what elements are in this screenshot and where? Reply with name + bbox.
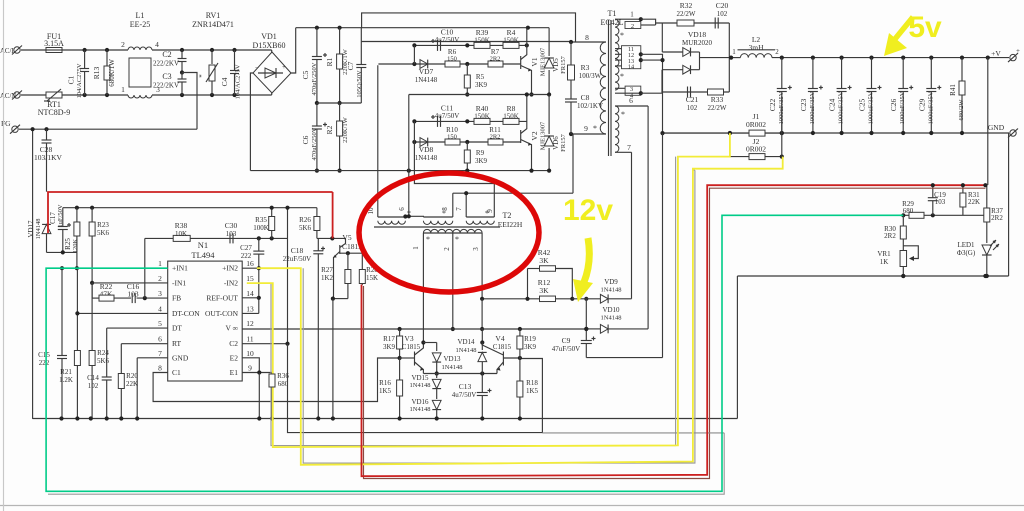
svg-text:V4: V4 bbox=[495, 334, 504, 343]
svg-text:9: 9 bbox=[248, 364, 252, 373]
svg-text:VD6: VD6 bbox=[552, 136, 560, 150]
svg-text:6: 6 bbox=[398, 207, 406, 211]
wire collector rail to T1 pin8 bbox=[362, 41, 571, 43]
wire VD8 row bbox=[414, 141, 520, 143]
svg-text:E1: E1 bbox=[230, 368, 239, 377]
wire bottom primary rail bbox=[250, 170, 549, 172]
wire red feedback highlight bbox=[332, 192, 334, 238]
svg-text:1000uF/35V: 1000uF/35V bbox=[838, 91, 845, 124]
T1 aux winding pins 6 7 bbox=[615, 106, 619, 152]
wire T2 pin3 down bbox=[481, 233, 483, 299]
svg-text:N1: N1 bbox=[198, 240, 208, 250]
svg-text:C8: C8 bbox=[581, 93, 590, 102]
wire C22 column to J rows bbox=[781, 97, 783, 157]
svg-text:103: 103 bbox=[127, 290, 139, 299]
capacitor C3 222/2KV bbox=[181, 73, 183, 80]
svg-text:VD14: VD14 bbox=[457, 338, 475, 346]
svg-text:0R002: 0R002 bbox=[746, 120, 766, 129]
wire right edge column bbox=[1008, 133, 1010, 276]
wire gray J2 sense return bbox=[693, 169, 695, 171]
arrow 5v yellow bbox=[895, 17, 913, 39]
svg-text:OUT-CON: OUT-CON bbox=[205, 309, 239, 318]
wire -IN1 pin2 bbox=[92, 282, 168, 284]
svg-text:150K: 150K bbox=[474, 37, 490, 45]
svg-text:1N4148: 1N4148 bbox=[35, 219, 42, 240]
capacitor C30 103 bbox=[229, 233, 231, 243]
wire +5V rail bbox=[772, 57, 1009, 59]
svg-text:V2: V2 bbox=[530, 131, 539, 140]
svg-text:R13: R13 bbox=[92, 67, 101, 80]
wire C21 R33 row bbox=[641, 92, 730, 93]
wire GND pin7 column bbox=[137, 357, 168, 359]
svg-text:1N4148: 1N4148 bbox=[410, 406, 431, 413]
svg-text:-IN1: -IN1 bbox=[172, 278, 186, 287]
resistor R25 120K bbox=[76, 208, 78, 222]
diode VD18 MUR2020 lower bbox=[683, 65, 691, 74]
svg-text:AC/L: AC/L bbox=[0, 48, 15, 55]
svg-text:*: * bbox=[198, 74, 206, 78]
svg-text:ZNR14D471: ZNR14D471 bbox=[192, 20, 234, 29]
svg-text:4: 4 bbox=[158, 304, 162, 313]
wire bus riser to output common bbox=[736, 276, 738, 419]
wire AC/N to bridge bottom bbox=[271, 93, 273, 95]
svg-text:1: 1 bbox=[158, 259, 162, 268]
wire FG line bbox=[19, 128, 197, 130]
T2 bottom winding pins 2 3 bbox=[453, 229, 482, 233]
wire VD7 row bbox=[378, 63, 520, 65]
svg-text:R23: R23 bbox=[97, 221, 109, 229]
svg-text:C14: C14 bbox=[87, 374, 99, 382]
wire DT pin5 column bbox=[106, 328, 108, 376]
wire gray drive line extension bbox=[542, 432, 724, 434]
resistor R6 150 bbox=[445, 61, 460, 67]
svg-text:3K9: 3K9 bbox=[475, 157, 488, 165]
svg-text:102/1KV: 102/1KV bbox=[577, 102, 603, 110]
svg-text:*: * bbox=[620, 31, 624, 40]
svg-text:EEI22H: EEI22H bbox=[498, 220, 523, 229]
svg-text:+V: +V bbox=[991, 49, 1001, 58]
svg-text:FR157: FR157 bbox=[560, 55, 567, 73]
svg-text:3K: 3K bbox=[539, 256, 549, 265]
arrow 12v yellow bbox=[584, 238, 589, 282]
svg-text:1uF/50V: 1uF/50V bbox=[57, 204, 64, 227]
T1 pin 1 bbox=[615, 18, 641, 20]
svg-text:*: * bbox=[593, 124, 597, 133]
resistor R18 1K5 bbox=[519, 358, 521, 381]
svg-text:14: 14 bbox=[628, 63, 634, 70]
svg-text:15K: 15K bbox=[366, 274, 378, 282]
resistor R1 220K/1W bbox=[339, 28, 341, 54]
T1 secondary winding continuous bbox=[615, 19, 619, 90]
wire AC/L to bridge top bbox=[271, 50, 273, 53]
svg-text:105Q/50V: 105Q/50V bbox=[356, 70, 363, 98]
svg-text:2: 2 bbox=[158, 274, 162, 283]
wire GND rail bbox=[663, 132, 1010, 134]
svg-text:T1: T1 bbox=[608, 9, 617, 18]
svg-text:*: * bbox=[426, 235, 430, 244]
resistor R9 3K9 bbox=[466, 142, 468, 150]
wire fuse to L1 pin2 bbox=[62, 49, 128, 51]
svg-text:V3: V3 bbox=[404, 334, 413, 343]
resistor R7 2R2 bbox=[488, 61, 503, 67]
svg-text:R9: R9 bbox=[476, 149, 485, 157]
svg-text:12v: 12v bbox=[563, 194, 613, 227]
T1 primary winding pin8 pin9 bbox=[600, 42, 606, 134]
resistor R42 3K bbox=[528, 268, 540, 270]
resistor R37 2R2 bbox=[986, 185, 988, 209]
svg-text:R33: R33 bbox=[711, 95, 724, 104]
svg-text:C1815: C1815 bbox=[493, 344, 512, 351]
wire mid rail bbox=[317, 102, 361, 104]
svg-text:VD7: VD7 bbox=[419, 67, 434, 76]
wire V3 collector row to VD13 bbox=[423, 342, 436, 344]
wire positive rail bbox=[296, 27, 549, 29]
resistor R33 22/2W bbox=[708, 89, 724, 95]
resistor R19 3K9 bbox=[519, 329, 521, 336]
svg-text:C7: C7 bbox=[346, 61, 355, 70]
red ellipse around T2 bbox=[359, 173, 539, 292]
wire L1 pin4 to bridge bbox=[152, 49, 272, 51]
svg-text:4u7/50V: 4u7/50V bbox=[435, 36, 460, 44]
T2 top winding pin 8 bbox=[423, 221, 452, 225]
capacitor C19 103 bbox=[932, 185, 934, 198]
svg-text:3K: 3K bbox=[539, 286, 549, 295]
T2 top winding pins 7 9 bbox=[466, 221, 494, 225]
resistor R29 680 bbox=[909, 212, 924, 218]
capacitor C13 4u7/50V bbox=[481, 374, 483, 393]
resistor R32 22/2W bbox=[677, 20, 694, 26]
T2 bottom winding pins 1 2 bbox=[423, 229, 452, 233]
svg-text:GND: GND bbox=[172, 353, 189, 362]
svg-text:470uF/250V: 470uF/250V bbox=[311, 127, 318, 160]
svg-text:C17: C17 bbox=[49, 212, 57, 224]
svg-text:680/2W: 680/2W bbox=[958, 99, 965, 121]
svg-text:100/3W: 100/3W bbox=[579, 72, 602, 80]
svg-text:1000uF/35V: 1000uF/35V bbox=[927, 91, 934, 124]
terminal FG bbox=[12, 126, 18, 132]
svg-text:MUR2020: MUR2020 bbox=[682, 39, 712, 47]
wire pin13 row bbox=[242, 312, 259, 314]
svg-text:+: + bbox=[1016, 47, 1020, 55]
svg-text:1000uF/35V: 1000uF/35V bbox=[809, 91, 816, 124]
wire midpoint rail bbox=[409, 94, 549, 96]
svg-text:1K: 1K bbox=[880, 258, 889, 266]
wire pin7 column to VD9 bbox=[631, 152, 633, 298]
capacitor C24 1000uF/35V bbox=[841, 58, 843, 89]
wire RT1 to L1 pin1 bbox=[62, 94, 128, 96]
resistor R30 2R2 bbox=[902, 215, 904, 226]
svg-text:104/AC275V: 104/AC275V bbox=[76, 63, 83, 98]
svg-text:1: 1 bbox=[412, 246, 420, 250]
svg-text:-IN2: -IN2 bbox=[224, 279, 238, 288]
svg-text:680K/1W: 680K/1W bbox=[108, 59, 116, 87]
svg-text:150K: 150K bbox=[503, 37, 519, 45]
svg-text:R5: R5 bbox=[476, 73, 485, 81]
svg-text:R21: R21 bbox=[60, 368, 72, 376]
svg-text:V ∞: V ∞ bbox=[225, 324, 238, 333]
svg-text:22K: 22K bbox=[968, 198, 980, 206]
capacitor C29 1000uF/35V bbox=[930, 58, 932, 89]
capacitor C4 104/AC275V bbox=[234, 50, 236, 71]
wire V5 base row bbox=[340, 252, 363, 254]
svg-text:C2: C2 bbox=[229, 339, 238, 348]
svg-text:102: 102 bbox=[717, 10, 728, 18]
svg-text:100K: 100K bbox=[253, 224, 269, 232]
svg-text:REF-OUT: REF-OUT bbox=[206, 293, 238, 302]
wire REF rail bbox=[63, 207, 317, 209]
resistor R26 5K6 bbox=[316, 208, 318, 217]
resistor R4 150K bbox=[503, 42, 519, 48]
svg-text:222/2KV: 222/2KV bbox=[153, 60, 179, 68]
wire bridge minus down bbox=[250, 73, 253, 171]
capacitor C16 103 bbox=[114, 297, 131, 299]
svg-text:C29: C29 bbox=[917, 99, 926, 112]
wire V5 emitter column down bbox=[332, 299, 334, 419]
svg-text:6: 6 bbox=[158, 335, 162, 344]
svg-text:*: * bbox=[455, 235, 459, 244]
svg-text:3K9: 3K9 bbox=[475, 81, 488, 89]
wire R42 R12 left bracket bbox=[527, 269, 529, 299]
wire snubber right leg bbox=[728, 23, 730, 92]
svg-text:1N4148: 1N4148 bbox=[442, 364, 463, 371]
svg-text:*: * bbox=[485, 209, 489, 218]
svg-text:RT: RT bbox=[172, 339, 182, 348]
svg-text:C1: C1 bbox=[67, 75, 76, 84]
capacitor C20 102 bbox=[714, 18, 716, 29]
svg-text:AC/N: AC/N bbox=[0, 93, 16, 100]
wire T2 pin1 down to V3 collector bbox=[422, 233, 424, 343]
svg-text:680: 680 bbox=[903, 207, 914, 215]
wire T2 pin9 up jog to VD8 row bbox=[414, 142, 494, 217]
resistor R10 150 bbox=[445, 139, 460, 145]
svg-text:8: 8 bbox=[158, 364, 162, 373]
capacitor C5 470uF/250V bbox=[316, 28, 318, 57]
page edge lines bbox=[0, 505, 1024, 507]
diode VD10 1N4148 bbox=[586, 328, 600, 330]
svg-text:R19: R19 bbox=[524, 335, 536, 343]
svg-text:C9: C9 bbox=[562, 336, 571, 345]
resistor R13 680K/1W bbox=[106, 50, 108, 66]
wire REF column bbox=[287, 208, 289, 344]
svg-text:VD16: VD16 bbox=[411, 398, 429, 406]
T2 top winding pins 10 6 bbox=[378, 221, 406, 224]
resistor R36 body overlay bbox=[269, 374, 275, 387]
svg-text:7: 7 bbox=[455, 207, 463, 211]
transistor V2 MJE13007 bbox=[520, 130, 522, 143]
svg-text:E2: E2 bbox=[230, 353, 239, 362]
svg-text:150K: 150K bbox=[474, 113, 490, 121]
wire R26 bottom node bbox=[317, 237, 346, 239]
svg-text:0R002: 0R002 bbox=[746, 145, 766, 154]
svg-text:VD8: VD8 bbox=[419, 145, 434, 154]
svg-text:5K6: 5K6 bbox=[97, 229, 110, 237]
svg-text:C1815: C1815 bbox=[402, 344, 421, 351]
wire emitter common row bbox=[423, 373, 497, 375]
svg-text:FB: FB bbox=[172, 294, 181, 303]
svg-text:R41: R41 bbox=[949, 84, 957, 96]
svg-text:C21: C21 bbox=[686, 95, 699, 104]
svg-text:150: 150 bbox=[447, 56, 457, 63]
wire yellow pin16 to J2 right bbox=[257, 157, 783, 465]
svg-text:NTC8D-9: NTC8D-9 bbox=[38, 108, 70, 117]
wire C2-C3 midpoint to FG line bbox=[182, 73, 197, 130]
terminal AC/N bbox=[14, 92, 20, 98]
svg-text:C23: C23 bbox=[799, 99, 808, 112]
svg-text:7: 7 bbox=[158, 349, 162, 358]
diode VD14 1N4148 bbox=[481, 329, 483, 350]
svg-text:2: 2 bbox=[631, 23, 634, 30]
wire snubber row R32 C20 bbox=[641, 19, 656, 25]
svg-text:8: 8 bbox=[585, 33, 589, 42]
svg-text:4u7/50V: 4u7/50V bbox=[435, 112, 460, 120]
svg-text:GND: GND bbox=[988, 123, 1005, 132]
svg-text:1000uF/35V: 1000uF/35V bbox=[868, 91, 875, 124]
diode VD16 1N4148 bbox=[436, 389, 438, 400]
resistor R17 3K9 bbox=[399, 329, 401, 336]
svg-text:R1: R1 bbox=[325, 57, 334, 66]
resistor R20 22K bbox=[121, 343, 167, 345]
wire dark red feedback original bbox=[364, 188, 986, 478]
thermistor RT1 NTC8D-9 bbox=[46, 92, 62, 98]
svg-text:5K6: 5K6 bbox=[97, 357, 110, 365]
wire pin6 column to VD10 bbox=[647, 106, 649, 329]
svg-text:1: 1 bbox=[732, 48, 736, 56]
svg-text:MJE13007: MJE13007 bbox=[540, 47, 547, 76]
node 12v junction bbox=[570, 297, 574, 301]
svg-text:C5: C5 bbox=[301, 70, 310, 79]
capacitor C1 104/AC275V bbox=[84, 50, 86, 69]
wire VD17 C17 R25 bottoms bbox=[47, 251, 77, 253]
svg-text:VD9: VD9 bbox=[604, 278, 618, 286]
svg-text:DT-CON: DT-CON bbox=[172, 309, 200, 318]
resistor R23 5K6 bbox=[91, 208, 93, 222]
wire AC/N to RT1 bbox=[21, 94, 46, 96]
diode VD13 1N4148 bbox=[436, 343, 438, 352]
svg-text:*: * bbox=[620, 72, 624, 81]
svg-text:3: 3 bbox=[158, 289, 162, 298]
wire Vcc pin12 rail bbox=[242, 328, 586, 330]
capacitor C9 47uF/50V bbox=[585, 299, 587, 329]
wire C9 bottom loop bbox=[586, 357, 662, 359]
wire FG earth vertical bbox=[32, 129, 34, 419]
svg-text:C20: C20 bbox=[716, 1, 729, 10]
svg-text:VD13: VD13 bbox=[443, 355, 461, 363]
svg-text:47uF/50V: 47uF/50V bbox=[552, 345, 580, 353]
wire yellow pin15 to J2 bbox=[247, 133, 730, 447]
diode VD5 FR157 bbox=[548, 28, 550, 56]
capacitor C11 4u7/50V bbox=[437, 116, 439, 127]
svg-text:DT: DT bbox=[172, 324, 182, 333]
wire T1 center column down bbox=[662, 133, 664, 358]
svg-text:+: + bbox=[282, 63, 286, 71]
resistor R21 1.2K bbox=[76, 268, 78, 350]
svg-text:7: 7 bbox=[627, 143, 631, 152]
svg-text:3K9: 3K9 bbox=[383, 343, 396, 351]
diode VD8 1N4148 bbox=[420, 138, 428, 147]
resistor R41 680/2W bbox=[961, 58, 963, 81]
wire gray J1 sense return bbox=[271, 157, 676, 446]
svg-text:1: 1 bbox=[121, 85, 125, 94]
svg-text:+IN2: +IN2 bbox=[222, 264, 238, 273]
svg-text:222: 222 bbox=[241, 252, 252, 260]
svg-text:3: 3 bbox=[472, 247, 480, 251]
svg-text:220K/1W: 220K/1W bbox=[342, 116, 349, 143]
svg-text:C15: C15 bbox=[38, 351, 50, 359]
svg-text:T2: T2 bbox=[503, 211, 512, 220]
svg-text:222: 222 bbox=[39, 359, 50, 367]
resistor R8 150K bbox=[503, 118, 519, 124]
svg-text:VD1: VD1 bbox=[261, 32, 277, 41]
svg-text:22uF/50V: 22uF/50V bbox=[283, 255, 311, 263]
svg-text:2: 2 bbox=[775, 48, 779, 56]
svg-text:−: − bbox=[255, 64, 259, 72]
svg-text:2: 2 bbox=[121, 40, 125, 49]
svg-text:1.2K: 1.2K bbox=[59, 376, 73, 384]
svg-text:VD15: VD15 bbox=[411, 374, 429, 382]
svg-text:1N4148: 1N4148 bbox=[456, 347, 477, 354]
svg-text:12: 12 bbox=[246, 319, 254, 328]
svg-text:R35: R35 bbox=[255, 216, 267, 224]
svg-text:V5: V5 bbox=[342, 233, 351, 242]
wire C10 row bbox=[414, 44, 526, 46]
svg-text:C18: C18 bbox=[291, 246, 304, 255]
svg-text:103: 103 bbox=[226, 230, 237, 238]
capacitor C2 222/2KV bbox=[181, 50, 183, 59]
svg-text:10: 10 bbox=[246, 349, 254, 358]
svg-text:3K9: 3K9 bbox=[524, 343, 537, 351]
svg-text:1K2: 1K2 bbox=[321, 274, 334, 282]
svg-text:C25: C25 bbox=[858, 99, 867, 112]
svg-text:FG: FG bbox=[1, 119, 11, 128]
svg-text:*: * bbox=[621, 110, 625, 119]
wire midpoint to T2 center jog bbox=[408, 95, 410, 217]
diode VD15 1N4148 bbox=[436, 374, 438, 379]
transistor V1 MJE13007 bbox=[520, 56, 522, 69]
svg-text:2R2: 2R2 bbox=[490, 56, 501, 63]
wire C2 pin11 route to V4 base bbox=[242, 343, 287, 345]
T1 pin 2 box bbox=[625, 22, 641, 29]
capacitor C28 103/1KV bbox=[46, 129, 48, 139]
svg-text:2R2: 2R2 bbox=[490, 134, 501, 141]
wire C1 pin8 route to V3 base bbox=[153, 358, 400, 402]
wire LED column from +5V bbox=[987, 58, 989, 185]
wire pin14 row bbox=[242, 297, 259, 299]
svg-text:150K: 150K bbox=[503, 113, 519, 121]
svg-text:22/2W: 22/2W bbox=[676, 10, 695, 18]
svg-text:C24: C24 bbox=[828, 99, 837, 112]
svg-text:4: 4 bbox=[155, 40, 159, 49]
svg-text:FR157: FR157 bbox=[560, 133, 567, 151]
svg-text:VD17: VD17 bbox=[27, 220, 35, 238]
svg-text:470uF/250V: 470uF/250V bbox=[311, 62, 318, 95]
svg-text:1K5: 1K5 bbox=[526, 387, 539, 395]
svg-text:222/2KV: 222/2KV bbox=[153, 82, 179, 90]
resistor R31 22K bbox=[962, 185, 964, 193]
svg-text:4u7/50V: 4u7/50V bbox=[452, 391, 477, 399]
wire E1 pin9 row bbox=[242, 372, 272, 374]
svg-text:2R2: 2R2 bbox=[991, 214, 1003, 222]
resistor R39 150K bbox=[474, 42, 490, 48]
wire DT-CON pin4 route bbox=[77, 312, 167, 314]
svg-text:R16: R16 bbox=[379, 379, 391, 387]
T1 pins 3 4 box bbox=[625, 86, 641, 95]
capacitor C15 222 bbox=[61, 268, 63, 355]
capacitor C25 1000uF/35V bbox=[871, 58, 873, 89]
svg-text:2R2: 2R2 bbox=[884, 232, 896, 240]
wire E2 pin10 to E1 bbox=[242, 358, 259, 373]
svg-text:103: 103 bbox=[935, 198, 946, 206]
svg-text:R17: R17 bbox=[383, 335, 395, 343]
